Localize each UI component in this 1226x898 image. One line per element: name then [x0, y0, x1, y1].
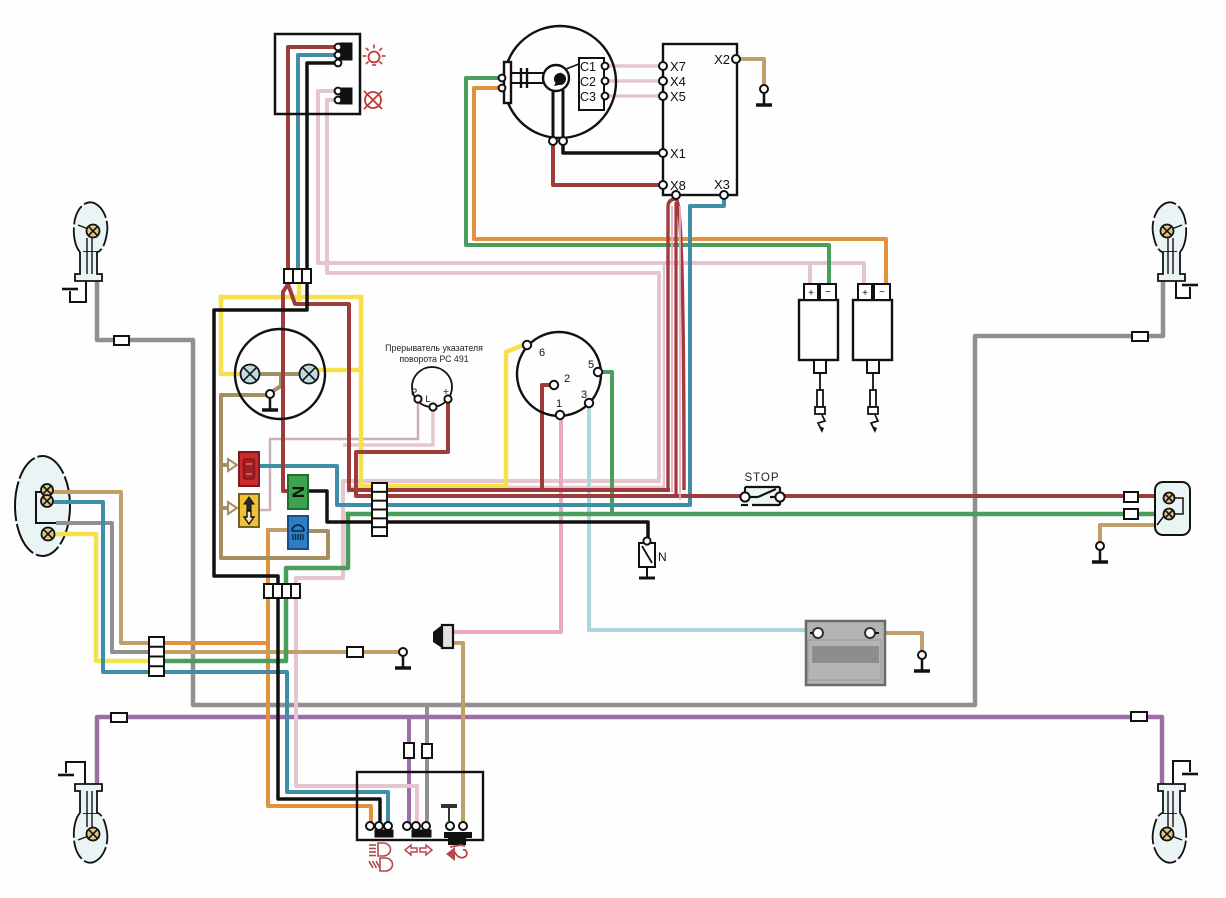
svg-text:поворота РС 491: поворота РС 491 — [399, 354, 468, 364]
wire pale-pink lamp-box to handlebar switch — [296, 100, 659, 588]
wire yellow from speedometer connector — [297, 284, 302, 299]
connector block lower in lamp box — [335, 88, 352, 104]
svg-text:6: 6 — [539, 347, 545, 359]
svg-text:STOP: STOP — [744, 472, 779, 484]
lamp unit box top-left — [275, 34, 360, 114]
wire gray-pink relay P lead to dimmer box — [261, 402, 418, 510]
turn signal lamp front-left — [74, 202, 108, 281]
wire dark-red connector to high-beam box — [283, 284, 289, 491]
terminal X1 — [659, 146, 686, 161]
wire pale-pink branch to coil 1 plus — [808, 263, 812, 284]
wire pale-pink below junction strip to switch terminal — [296, 594, 417, 822]
turn signal switch box (yellow) — [239, 494, 259, 527]
wire yellow to ignition terminal 6 — [361, 346, 521, 486]
ground front-left signal — [62, 281, 86, 302]
svg-text:X4: X4 — [670, 74, 686, 89]
icon turn signals — [405, 845, 432, 855]
speedometer lamp right — [300, 365, 319, 384]
wire pink strands in X8 bundle — [671, 206, 673, 492]
terminal X4 — [659, 74, 686, 89]
icon high beam — [369, 843, 391, 856]
wire yellow right drop — [359, 297, 364, 486]
wire dark-red headlamp bulb to X8 — [553, 143, 663, 185]
wire teal X3 to light switch box — [261, 197, 724, 505]
svg-text:1: 1 — [556, 398, 562, 410]
wire yellow speedometer loop top — [221, 295, 361, 300]
terminal X7 — [659, 59, 686, 74]
ground rear-right signal — [1173, 761, 1198, 784]
svg-text:X3: X3 — [714, 177, 730, 192]
svg-text:L: L — [425, 394, 430, 405]
icon crossed lamp (high beam tell-tale) — [364, 91, 382, 109]
wire dark-red relay plus and stop lamp run — [356, 402, 1155, 496]
wire pale-cyan ignition 3 to battery — [589, 407, 808, 630]
wire gray turn-signal bus front-left to front-right — [97, 281, 1163, 705]
icon low beam — [369, 858, 393, 871]
wire tan tail lamp to ground — [1100, 525, 1155, 542]
wire orange vertical to handlebar switch — [268, 530, 371, 822]
svg-text:3: 3 — [581, 389, 587, 401]
svg-text:2: 2 — [564, 373, 570, 385]
ground battery — [914, 651, 930, 671]
connector rear-right signal — [1131, 712, 1147, 721]
ignition terminal 1 — [556, 398, 564, 419]
ground frame near horn — [395, 648, 411, 668]
turn signal lamp rear-right — [1153, 784, 1187, 863]
wire green junction strip to left strip — [161, 594, 286, 661]
ignition coil 2 — [853, 284, 892, 373]
ignition terminal 6 — [523, 341, 545, 359]
relay terminal P — [414, 395, 421, 402]
terminal X3 — [714, 177, 730, 199]
wire yellow stub to right speedo lamp — [319, 368, 361, 373]
svg-text:Прерыватель указателя: Прерыватель указателя — [385, 343, 483, 353]
svg-text:C3: C3 — [580, 90, 596, 104]
wire green tail lamp run — [348, 512, 1155, 517]
wire black below junction strip to switch — [278, 594, 380, 822]
terminal X5 — [659, 89, 686, 104]
tail lamp bulb upper — [1164, 493, 1175, 504]
brown arrow plug into red box — [228, 459, 237, 471]
neutral indicator box (green) — [288, 475, 308, 509]
wire brown elbow to speedometer ground — [273, 374, 281, 391]
wire green ignition 5 drop — [602, 372, 612, 514]
svg-text:C2: C2 — [580, 75, 596, 89]
wire dark-red main feed loop — [288, 284, 668, 490]
connector strip mid (6 cells) — [372, 483, 387, 536]
wire green headlamp switch to coil 1 minus — [466, 78, 829, 284]
headlight dual filament bulb — [41, 484, 53, 496]
wire pale-pink parallel strand — [348, 265, 664, 492]
headlight parking bulb — [42, 528, 55, 541]
wire black lamp box drop — [307, 63, 338, 271]
headlamp bulb — [511, 64, 579, 145]
wire violet rear turn-signal bus — [97, 717, 1162, 784]
battery — [806, 621, 885, 685]
icon horn — [446, 845, 467, 861]
wire black headlamp bulb to X1 — [563, 143, 663, 153]
connector block upper in lamp box — [335, 43, 352, 66]
ignition terminal 5 — [588, 359, 602, 376]
terminal X8 bottom — [672, 191, 680, 199]
relay terminal L — [429, 403, 436, 410]
tail lamp bulb lower — [1164, 509, 1175, 520]
light switch box (red) — [239, 452, 259, 486]
headlamp switch housing circle — [504, 26, 616, 138]
wire teal from lamp box — [298, 55, 338, 271]
headlight — [15, 456, 70, 556]
spark plug of coil 2 — [868, 373, 878, 433]
wire pale-pink C1 to X7 — [607, 64, 663, 68]
wire orange headlamp switch to coil 2 minus — [474, 88, 886, 284]
wire brown arrow feed to light switch box — [221, 463, 230, 467]
wire dark-red bundle from X8 — [668, 199, 684, 490]
connector speedometer (3 cells) — [284, 269, 311, 283]
svg-text:X1: X1 — [670, 146, 686, 161]
switch terminals group 2 — [403, 822, 431, 837]
connector tail lamp stop wire — [1124, 492, 1138, 502]
ground for X2 — [756, 85, 772, 105]
wire pale-pink C3 to X5 — [607, 94, 663, 98]
wire dark-red lamp box drop — [288, 47, 338, 271]
connector strip bottom (4 cells) — [264, 584, 300, 598]
connector front-right signal — [1132, 332, 1148, 341]
wire pale-pink pilot feed to ignition coils — [318, 91, 864, 284]
ignition terminal 2 — [550, 373, 570, 389]
svg-text:−: − — [825, 287, 831, 298]
wire green drop to junction strip — [286, 514, 348, 588]
svg-text:N: N — [658, 550, 667, 564]
wire dark-red branch to ignition 2 — [542, 385, 550, 490]
wire yellow left drop to speedometer lamp — [221, 297, 241, 374]
terminal X2 — [714, 52, 740, 67]
bulb of turn signal front-left — [87, 225, 100, 238]
neutral switch N — [639, 537, 667, 578]
brown arrow plug into yellow box — [228, 502, 237, 514]
ignition coil 1 — [799, 284, 838, 373]
wire brown speedometer ground to dimmer loop — [221, 395, 328, 558]
svg-text:−: − — [879, 287, 885, 298]
connector tail lamp green wire — [1124, 509, 1138, 519]
horn — [433, 625, 453, 648]
connector strip left (4 cells) — [149, 637, 164, 676]
bulb of turn signal front-right — [1161, 225, 1174, 238]
speedometer lamp left — [241, 365, 260, 384]
wire black headlight inner jog — [36, 492, 60, 523]
svg-text:X7: X7 — [670, 59, 686, 74]
ignition switch circle — [517, 332, 601, 416]
wire black high-beam box to neutral switch — [308, 491, 648, 538]
connector front-left signal — [114, 336, 129, 345]
svg-text:+: + — [808, 288, 814, 299]
wire pink ignition 1 to horn — [455, 419, 561, 632]
bulb of turn signal rear-left — [87, 828, 100, 841]
connector block C1 C2 C3 — [579, 58, 608, 110]
wire gray headlight ground lead — [58, 523, 152, 652]
speedometer housing — [235, 329, 325, 419]
wire stubs inside headlight — [50, 490, 72, 494]
turn signal lamp front-right — [1153, 202, 1187, 281]
ground tail lamp — [1092, 542, 1108, 562]
stop lamp switch — [740, 487, 784, 505]
commutator box — [663, 44, 737, 195]
svg-text:X2: X2 — [714, 52, 730, 67]
ground front-right signal — [1176, 281, 1198, 298]
connector tan ground run — [347, 647, 363, 657]
svg-text:N: N — [289, 486, 308, 498]
wire black connector down left side — [214, 284, 307, 588]
bulb of turn signal rear-right — [1161, 828, 1174, 841]
wire gray branch to handlebar switch — [425, 705, 429, 826]
spark plug of coil 1 — [815, 373, 825, 433]
wire tan headlight main feed — [53, 492, 152, 643]
connector violet branch — [404, 743, 414, 758]
ground rear-left signal — [58, 762, 85, 784]
svg-text:C1: C1 — [580, 60, 596, 74]
wire pale-pink relay L lead — [345, 410, 433, 445]
ignition terminal 3 — [581, 389, 593, 407]
wire tan stub to high-beam pilot box — [268, 528, 289, 532]
switch terminals group 3 with lever — [441, 804, 472, 845]
icon lamp (headlight symbol) — [363, 45, 386, 66]
wire brown arrow feed to turn switch box — [221, 506, 230, 510]
turn signal lamp rear-left — [74, 784, 108, 863]
ground speedometer — [262, 390, 278, 410]
wire brown speedometer lamp link — [259, 372, 300, 376]
wire tan battery positive to ground — [874, 633, 922, 651]
tail lamp — [1155, 482, 1190, 535]
wire tan X2 to ground — [740, 59, 764, 85]
relay PC491 body — [411, 367, 452, 407]
wire tan horn to handlebar switch — [452, 643, 463, 822]
wire orange feed via junction strip — [161, 641, 268, 645]
connector rear-left signal — [111, 713, 127, 722]
svg-text:X5: X5 — [670, 89, 686, 104]
wire tan ground run to frame ground — [161, 650, 399, 654]
connector gray branch — [422, 744, 432, 758]
handlebar switch block — [357, 772, 483, 840]
headlamp bulb socket plug — [499, 62, 511, 103]
wire violet branch to handlebar switch — [407, 717, 411, 822]
wire teal headlight low beam — [53, 502, 388, 822]
wire pale-pink C2 to X4 — [607, 79, 663, 83]
svg-text:5: 5 — [588, 359, 594, 371]
wire yellow headlight parking lamp — [54, 534, 152, 661]
relay terminal plus — [444, 395, 451, 402]
high beam indicator box (blue) — [288, 516, 308, 549]
switch terminals group 1 — [366, 822, 393, 837]
terminal X8 — [659, 178, 686, 193]
svg-text:+: + — [862, 288, 868, 299]
